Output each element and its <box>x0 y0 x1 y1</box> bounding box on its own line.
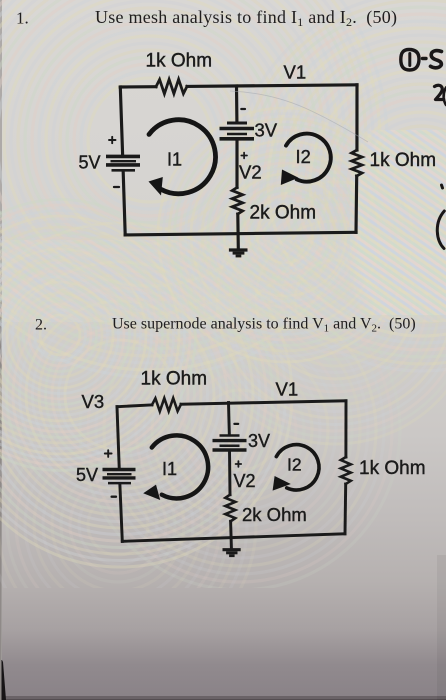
svg-text:3V: 3V <box>248 431 270 451</box>
svg-text:V1: V1 <box>284 62 307 83</box>
svg-text:Use mesh analysis to find I1 a: Use mesh analysis to find I1 and I2. (50… <box>95 7 397 29</box>
svg-text:I2: I2 <box>296 146 311 167</box>
svg-text:2k Ohm: 2k Ohm <box>242 504 307 525</box>
svg-text:Use supernode analysis to find: Use supernode analysis to find V1 and V2… <box>112 316 416 335</box>
svg-text:I1: I1 <box>162 459 177 479</box>
svg-text:1k Ohm: 1k Ohm <box>141 369 208 390</box>
svg-text:I2: I2 <box>287 455 302 475</box>
svg-text:5V: 5V <box>76 465 98 485</box>
svg-text:3V: 3V <box>255 120 278 141</box>
svg-text:1k Ohm: 1k Ohm <box>146 51 213 72</box>
svg-text:1k Ohm: 1k Ohm <box>359 458 426 479</box>
svg-text:V3: V3 <box>82 391 105 412</box>
svg-text:V2: V2 <box>239 162 262 183</box>
svg-text:I1: I1 <box>167 150 182 170</box>
svg-text:V2: V2 <box>234 471 256 491</box>
svg-text:2.: 2. <box>35 317 47 334</box>
svg-text:2k Ohm: 2k Ohm <box>250 203 317 224</box>
svg-text:1.: 1. <box>16 9 29 28</box>
svg-text:V1: V1 <box>276 379 299 400</box>
svg-text:5V: 5V <box>79 153 101 173</box>
svg-text:1k Ohm: 1k Ohm <box>370 150 437 171</box>
